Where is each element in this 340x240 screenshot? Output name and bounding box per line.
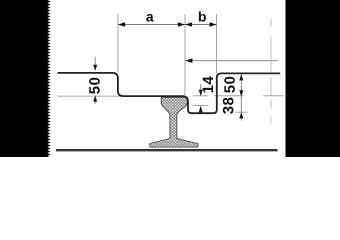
label 38 (rotated) bbox=[223, 98, 234, 114]
dimension 14: top arrow (down, outside) bbox=[199, 90, 203, 96]
base/foundation line bbox=[56, 149, 278, 151]
arrow right of dimension a bbox=[178, 22, 185, 27]
right black mask bar bbox=[286, 0, 340, 157]
rail cross-section (hatched steel) bbox=[150, 97, 198, 147]
wire: lower pavement level extension line (left of step) bbox=[58, 95, 124, 97]
arrow left of dimension a bbox=[118, 22, 125, 27]
dimension 38: bottom arrow (up, outside) bbox=[239, 112, 243, 118]
dimension 50 left: top arrow (down) bbox=[93, 65, 97, 71]
dimension 38: bottom extension line bbox=[235, 111, 248, 113]
label 14 (rotated) bbox=[203, 76, 213, 92]
dimension 50 right: top arrow (up) bbox=[239, 74, 243, 80]
rail-top level extension line (right side, part 2, crossing centerline) bbox=[263, 95, 284, 97]
pavement / groove outline bbox=[58, 73, 281, 113]
rail-top level extension line (right side, part 1) bbox=[214, 95, 244, 97]
dimension a/b line bbox=[118, 24, 217, 26]
label 50 left (rotated) bbox=[89, 78, 100, 94]
label b bbox=[199, 11, 206, 21]
dimension 50/38 right: line bbox=[240, 74, 242, 120]
label a bbox=[146, 14, 153, 22]
dimension 14: bottom arrow (up, outside) bbox=[199, 106, 203, 113]
centerline (dash-dot) at x=271 bbox=[270, 19, 272, 124]
node: extension line at x=216.6 (right edge of dimension b) bbox=[216, 14, 218, 74]
dimension 14: extension line top bbox=[193, 95, 208, 97]
left black mask bar with torn edge bbox=[0, 0, 51, 159]
node: extension line at x=118 (left edge of dimension a) bbox=[117, 14, 119, 72]
label 50 right (rotated) bbox=[224, 77, 235, 93]
node: extension line at x=185 (between a and b) bbox=[184, 14, 186, 95]
leader line at y=60.7 bbox=[185, 60, 277, 62]
arrow right of dimension b bbox=[210, 22, 217, 27]
leader arrow pointing left bbox=[185, 58, 192, 63]
dimension 50 left: bottom arrow (up) bbox=[93, 95, 97, 101]
dimension 14: extension line bottom bbox=[193, 105, 208, 107]
dimension 50 left: lower tail bbox=[94, 102, 96, 105]
dimension 50 right / 38 top: arrow (down) bbox=[239, 90, 243, 96]
arrow left of dimension b bbox=[185, 22, 192, 27]
dimension 14: upper tail bbox=[200, 84, 202, 91]
dimension 50 left: upper tail bbox=[94, 57, 96, 65]
